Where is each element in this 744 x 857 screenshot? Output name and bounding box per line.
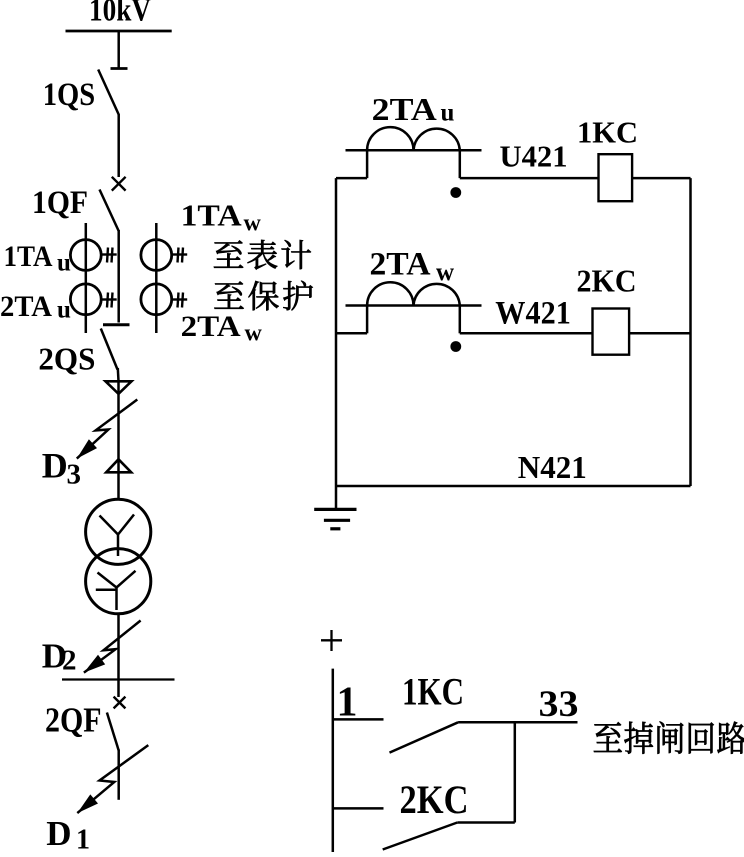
svg-text:w: w (244, 211, 262, 237)
svg-text:W421: W421 (495, 296, 571, 332)
svg-text:U421: U421 (500, 139, 568, 174)
svg-text:33: 33 (539, 684, 579, 725)
svg-text:w: w (436, 259, 454, 286)
svg-text:D: D (46, 814, 71, 852)
svg-text:1KC: 1KC (577, 115, 638, 150)
svg-text:1: 1 (337, 680, 358, 726)
svg-text:3: 3 (67, 459, 82, 491)
svg-text:u: u (57, 250, 71, 277)
svg-text:10kV: 10kV (89, 0, 151, 29)
svg-text:u: u (441, 100, 455, 127)
svg-text:u: u (57, 297, 71, 324)
svg-text:2TA: 2TA (370, 247, 431, 283)
svg-text:2QF: 2QF (45, 701, 102, 740)
svg-text:1: 1 (76, 825, 90, 852)
svg-text:2: 2 (62, 645, 77, 677)
svg-text:D: D (42, 446, 68, 486)
svg-text:2KC: 2KC (577, 263, 637, 299)
svg-text:2TA: 2TA (372, 91, 437, 127)
svg-text:2KC: 2KC (400, 777, 469, 822)
svg-text:1TA: 1TA (181, 198, 243, 233)
svg-text:1KC: 1KC (402, 671, 464, 714)
svg-text:w: w (245, 320, 263, 346)
svg-text:1QF: 1QF (32, 185, 88, 221)
svg-text:N421: N421 (518, 449, 587, 485)
svg-text:2TA: 2TA (0, 290, 52, 323)
svg-text:2QS: 2QS (38, 340, 95, 376)
svg-text:1QS: 1QS (43, 77, 95, 113)
svg-text:2TA: 2TA (181, 310, 241, 343)
svg-text:1TA: 1TA (4, 240, 53, 273)
